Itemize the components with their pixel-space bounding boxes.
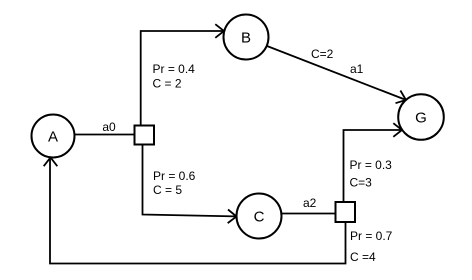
svg-text:C=2: C=2 (311, 47, 334, 61)
wire S2 down, left and up to A (return loop) (50, 159, 346, 264)
svg-text:C = 2: C = 2 (153, 77, 182, 91)
svg-text:C = 5: C = 5 (153, 183, 182, 197)
arrowhead into A (44, 158, 58, 167)
arrowhead into C (228, 210, 237, 224)
wire C to square S2 (action a2) (281, 213, 335, 215)
wire B to G (action a1) (267, 46, 405, 99)
arrowhead into G from S2 (393, 123, 402, 137)
wire S1 up and right to B (141, 31, 223, 126)
svg-text:C =4: C =4 (350, 250, 376, 264)
wire S1 down and right to C (143, 145, 236, 217)
svg-text:B: B (241, 30, 251, 47)
arrowhead into G from B (396, 91, 407, 104)
svg-text:Pr = 0.7: Pr = 0.7 (350, 229, 393, 243)
svg-text:a1: a1 (350, 62, 364, 76)
wire A to square S1 (action a0) (75, 134, 135, 136)
svg-text:Pr = 0.3: Pr = 0.3 (350, 158, 393, 172)
svg-text:Pr = 0.4: Pr = 0.4 (153, 62, 196, 76)
chance node S1 (135, 126, 155, 145)
node A (32, 115, 75, 158)
svg-text:C=3: C=3 (350, 176, 373, 190)
svg-text:C: C (254, 209, 265, 226)
node B (224, 15, 269, 60)
arrowhead into B (215, 24, 224, 38)
svg-text:a2: a2 (303, 196, 317, 210)
svg-text:A: A (48, 129, 58, 146)
node C (237, 194, 282, 239)
svg-text:a0: a0 (102, 120, 116, 134)
svg-text:G: G (415, 110, 427, 127)
wire S2 up and right to G (344, 130, 402, 202)
svg-text:Pr = 0.6: Pr = 0.6 (153, 169, 196, 183)
node G (398, 94, 444, 140)
chance node S2 (336, 202, 356, 222)
